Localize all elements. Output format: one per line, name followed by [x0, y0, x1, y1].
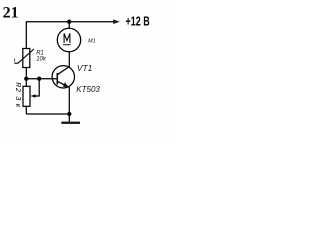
motor M1 body	[57, 28, 80, 51]
svg-text:10k: 10k	[36, 57, 47, 63]
svg-text:VT1: VT1	[77, 63, 92, 73]
emitter of VT1 with arrow	[57, 81, 69, 87]
emitter arrowhead	[63, 82, 69, 87]
node: junction dot on top rail above motor	[67, 20, 71, 24]
node: junction dot at wiper	[37, 77, 41, 81]
svg-text:R2: R2	[14, 82, 21, 92]
wire: collector lead to motor	[68, 52, 70, 67]
wire: +12V top rail	[26, 21, 114, 23]
collector of VT1	[57, 67, 69, 75]
node: junction dot at emitter/ground	[67, 112, 71, 116]
arrow to +12V	[113, 19, 120, 24]
wiper of R2	[35, 79, 39, 96]
svg-text:21: 21	[3, 4, 19, 21]
wire: bottom return wire	[26, 113, 69, 115]
thermistor stroke of R1	[14, 49, 34, 63]
underline of motor letter	[63, 44, 71, 46]
wire: R1 bottom lead to base node	[25, 68, 27, 79]
wire: emitter lead down	[68, 87, 70, 114]
wire: R1 top lead	[25, 21, 27, 48]
wire: R2 bottom lead	[25, 106, 27, 114]
wire: base wire	[26, 78, 57, 80]
wire: ground lead	[68, 114, 70, 122]
letter M of motor	[64, 33, 70, 43]
svg-text:+12 В: +12 В	[126, 15, 150, 29]
svg-text:3к: 3к	[14, 96, 23, 110]
wire: motor top lead	[68, 22, 70, 29]
ground	[61, 122, 80, 124]
wiper arrowhead	[30, 94, 35, 98]
node: junction dot at R1/R2	[24, 77, 28, 81]
wire: R2 top lead	[25, 79, 27, 87]
svg-text:R1: R1	[36, 50, 44, 56]
svg-text:M1: M1	[88, 39, 96, 45]
transistor VT1 body circle	[52, 66, 74, 88]
potentiometer R2 body	[23, 86, 30, 106]
svg-text:KT503: KT503	[76, 85, 100, 94]
resistor R1 (thermistor) body	[23, 49, 30, 68]
base bar of VT1	[56, 73, 58, 85]
